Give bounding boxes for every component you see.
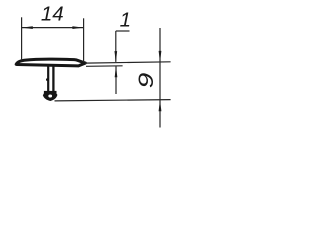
stem right wall — [52, 66, 54, 92]
foot crossbar — [44, 91, 57, 93]
foot white pocket — [48, 94, 52, 97]
leader shoulder for dim 1 — [116, 30, 130, 32]
svg-text:9: 9 — [136, 73, 159, 89]
foot blob — [43, 92, 58, 101]
dim 9 line — [159, 28, 161, 128]
arrowhead dim1 down — [114, 51, 117, 62]
extension line right (14 dim) — [83, 18, 85, 62]
svg-text:1: 1 — [120, 8, 131, 31]
arrowhead 14 right — [72, 26, 83, 29]
stem left wall — [47, 66, 49, 92]
T-profile flange outline — [16, 59, 85, 66]
dim text 9 (rotated) — [136, 73, 159, 89]
arrowhead dim1 up — [115, 66, 118, 77]
dim 1 upper shaft — [115, 31, 117, 62]
arrowhead dim9 down (at top ext line) — [159, 51, 162, 62]
mid extension line right (flange bottom) — [86, 65, 123, 68]
arrowhead dim9 up (at bottom ext line) — [159, 100, 162, 111]
extension line left (14 dim) — [21, 17, 23, 60]
dimension line 14 — [22, 27, 84, 29]
bottom extension line (stem foot) — [55, 100, 171, 101]
arrowhead 14 left — [22, 26, 33, 29]
barb bump on left stem wall — [46, 78, 49, 81]
svg-text:14: 14 — [41, 3, 64, 26]
dim 1 lower shaft — [115, 67, 117, 95]
top extension line right (flange top) — [85, 62, 171, 63]
